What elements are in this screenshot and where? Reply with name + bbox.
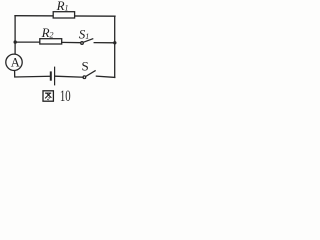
resistor R1 (53, 12, 74, 18)
svg-text:S1: S1 (79, 27, 90, 42)
svg-text:10: 10 (60, 88, 71, 105)
wire left rail (14, 16, 16, 55)
svg-text:A: A (11, 55, 20, 69)
wire ammeter bottom to battery (15, 70, 51, 77)
battery cell (51, 67, 55, 85)
wire top side (15, 15, 115, 18)
wire battery to switch S (55, 76, 83, 77)
ammeter A (6, 54, 22, 70)
wire right rail (114, 16, 116, 77)
caption glyph 图 (43, 91, 53, 101)
wire R2 to switch S1 (62, 41, 81, 43)
svg-text:R2: R2 (41, 25, 54, 40)
switch S1 (81, 39, 93, 45)
wire S1 to right rail (94, 42, 115, 44)
resistor R2 (40, 39, 62, 44)
wire middle row left (15, 41, 40, 43)
junction node right (113, 41, 116, 44)
switch S (83, 71, 95, 79)
wire S to bottom-right corner (96, 76, 114, 77)
svg-text:S: S (82, 58, 89, 73)
svg-text:R1: R1 (56, 0, 69, 13)
junction node left (14, 40, 17, 43)
